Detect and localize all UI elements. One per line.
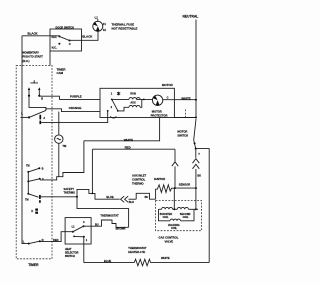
svg-text:BLACK: BLACK (82, 35, 93, 39)
svg-text:BROWN: BROWN (116, 228, 126, 231)
door switch S1 (50, 25, 82, 51)
timer cam contact 3 (25, 193, 40, 203)
label heat selector switch (65, 248, 79, 258)
svg-text:WHITE: WHITE (161, 256, 170, 260)
wire neutral vertical (195, 20, 197, 118)
svg-text:PURPLE: PURPLE (70, 94, 82, 98)
motor box M1 (100, 83, 174, 118)
timer run contact L (21, 96, 46, 119)
wire black L1 feed top-left (22, 32, 59, 36)
svg-text:BLACK: BLACK (28, 32, 39, 36)
svg-text:N.O.: N.O. (52, 35, 58, 39)
svg-text:WHITE: WHITE (124, 138, 133, 142)
motor protector (151, 95, 168, 117)
wire white motor feedback (84, 118, 160, 143)
svg-text:L1: L1 (95, 16, 99, 20)
svg-text:SAFETY: SAFETY (64, 187, 75, 191)
svg-text:TM: TM (25, 199, 29, 202)
svg-text:MOTOR: MOTOR (162, 83, 174, 87)
svg-text:MOTOR: MOTOR (177, 130, 187, 134)
svg-text:WHITE: WHITE (181, 96, 190, 100)
label momentary push to start (23, 51, 44, 63)
wire motor box to neutral junction (174, 110, 197, 119)
node NEUTRAL (183, 15, 199, 19)
svg-text:THERMOSTAT: THERMOSTAT (100, 213, 119, 217)
wire red down to safety thermo line (91, 149, 93, 193)
svg-text:MOMENTARY: MOMENTARY (23, 51, 40, 55)
svg-text:BK: BK (197, 174, 201, 177)
svg-text:SWITCH: SWITCH (65, 255, 75, 258)
timer line contact L-R (23, 238, 44, 245)
svg-text:A: A (43, 117, 45, 120)
svg-text:C: C (69, 42, 71, 46)
motor aux winding (118, 99, 142, 111)
wire main left vertical (22, 36, 29, 244)
label thermal fuse (112, 23, 138, 31)
switch push-to-start (28, 80, 41, 96)
svg-text:C: C (83, 221, 85, 224)
holding coil (159, 209, 195, 230)
booster coil (159, 207, 178, 219)
svg-text:THERMO: THERMO (132, 181, 144, 185)
wire windings to protector (136, 99, 152, 101)
svg-text:COIL: COIL (163, 216, 169, 219)
wire bottom white (151, 256, 210, 263)
wire black from door switch to thermal fuse (70, 31, 99, 40)
svg-text:BLUE: BLUE (104, 259, 112, 263)
contact D pair (31, 209, 38, 214)
thermostat heater resistor (128, 246, 150, 266)
svg-text:AUX: AUX (130, 102, 136, 105)
flame sensor wire (174, 182, 196, 189)
svg-text:THERMO: THERMO (64, 191, 76, 195)
svg-text:RED: RED (125, 146, 131, 150)
svg-text:AUX INLET: AUX INLET (132, 173, 147, 177)
motor switch on neutral (177, 119, 196, 150)
second coil (177, 207, 198, 219)
svg-text:B: B (41, 97, 43, 100)
wire bottom blue (84, 259, 134, 263)
igniter resistor (154, 177, 175, 199)
wire cam link (27, 172, 29, 194)
svg-text:COIL: COIL (183, 216, 189, 219)
svg-text:RUN: RUN (130, 93, 136, 96)
wire door switch NC to timer (49, 51, 51, 66)
label gas control valve (159, 235, 179, 243)
label timer cam (57, 67, 67, 75)
svg-text:TIMER: TIMER (28, 263, 39, 267)
motor run winding (112, 93, 140, 100)
gas control valve box dashed (156, 201, 202, 231)
svg-text:GAS CONTROL: GAS CONTROL (159, 235, 179, 239)
connector plug on neutral (193, 149, 202, 211)
svg-text:C: C (42, 178, 44, 181)
wire white protector to neutral (163, 96, 197, 100)
cycling thermostat (84, 213, 129, 230)
svg-text:THERMOSTAT: THERMOSTAT (128, 246, 147, 250)
svg-text:SWITCH: SWITCH (177, 134, 188, 138)
contact A bars (40, 115, 45, 124)
svg-text:R: R (42, 238, 44, 242)
wire heat selector down (83, 237, 85, 263)
svg-text:HEATER-3 W.: HEATER-3 W. (128, 250, 145, 254)
svg-text:(N.O.): (N.O.) (23, 59, 30, 63)
wire neutral branch to right bus (196, 149, 210, 263)
svg-text:ORANGE: ORANGE (69, 106, 82, 110)
wire heat selector to timer (40, 232, 73, 242)
svg-text:C: C (167, 96, 169, 99)
wire purple to motor (39, 94, 100, 99)
timer box dashed (16, 66, 52, 259)
svg-text:SENSOR: SENSOR (179, 182, 190, 186)
svg-text:B: B (42, 168, 44, 171)
svg-text:RED: RED (53, 238, 59, 242)
svg-text:DOOR SWITCH: DOOR SWITCH (56, 25, 75, 29)
svg-text:N.C.: N.C. (52, 46, 58, 50)
wire orange to motor (46, 106, 100, 111)
motor start switch internals (107, 92, 120, 118)
timer cam TM contact 1 (26, 165, 44, 173)
connector chevrons blue (121, 196, 137, 204)
svg-text:IGNITOR: IGNITOR (154, 177, 165, 181)
svg-text:NOT RESETTABLE: NOT RESETTABLE (112, 27, 138, 31)
connector plug on red (172, 149, 178, 188)
wire sensor to booster coil (173, 188, 175, 210)
svg-text:D: D (31, 210, 33, 213)
safety thermostat (64, 187, 120, 199)
svg-text:VALVE: VALVE (165, 239, 174, 243)
svg-text:COIL: COIL (171, 227, 177, 230)
svg-text:BLUE: BLUE (106, 195, 114, 199)
timer motor TM (55, 112, 67, 177)
wire white to timer cam C (40, 141, 84, 180)
svg-text:NEUTRAL: NEUTRAL (183, 15, 199, 19)
svg-text:CAM: CAM (57, 71, 64, 75)
heat selector switch (65, 218, 91, 244)
wire safety thermo branch down (77, 197, 129, 228)
svg-text:CONTROL: CONTROL (132, 177, 146, 181)
svg-text:BLU: BLU (129, 201, 134, 204)
aux inlet control thermostat (132, 173, 156, 199)
svg-text:TM: TM (26, 165, 30, 168)
svg-text:PUSH TO START: PUSH TO START (23, 55, 44, 59)
thermal fuse F1 (93, 16, 107, 33)
svg-text:MOTOR: MOTOR (152, 109, 162, 113)
svg-text:BU: BU (145, 196, 149, 199)
timer cam contact 2 (27, 178, 44, 183)
wire timer to safety thermostat (40, 196, 77, 198)
wire contact A to motor switch riser (41, 111, 108, 123)
svg-text:PROTECTOR: PROTECTOR (151, 113, 168, 117)
wire red igniter feed (92, 146, 175, 150)
